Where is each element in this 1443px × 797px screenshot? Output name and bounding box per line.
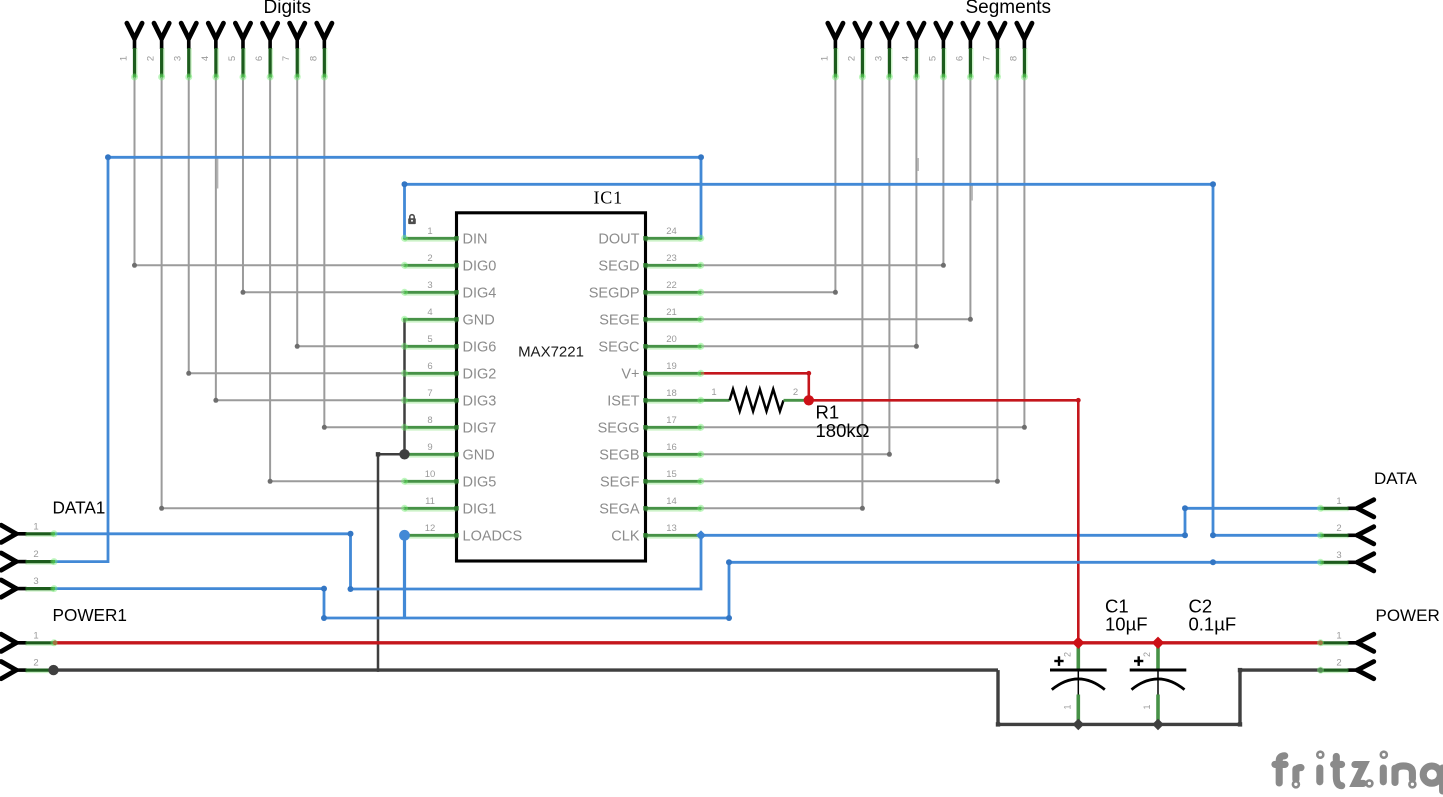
header POWER1 pin 1 bbox=[1, 634, 16, 643]
header DATA1 pin 2 bbox=[1, 553, 16, 562]
wire V+ pin19 to bend bbox=[701, 372, 809, 375]
wire GND pin9 left jog bbox=[378, 453, 405, 456]
svg-text:24: 24 bbox=[666, 226, 677, 237]
wire GND corner up bbox=[1238, 670, 1241, 724]
junction C1 ground bbox=[1073, 719, 1085, 731]
IC1 pin 22 SEGDP (right) bbox=[646, 292, 701, 295]
svg-text:14: 14 bbox=[666, 496, 677, 507]
svg-text:16: 16 bbox=[666, 442, 677, 453]
header DATA1 pin 3 bbox=[1, 580, 16, 589]
svg-text:SEGA: SEGA bbox=[599, 502, 640, 518]
svg-text:180kΩ: 180kΩ bbox=[816, 420, 870, 441]
svg-text:2: 2 bbox=[1336, 658, 1341, 669]
svg-text:Segments: Segments bbox=[966, 0, 1052, 18]
logo fritzing bbox=[1275, 756, 1443, 791]
capacitor C2 lead 1 bbox=[1157, 671, 1159, 695]
svg-text:2: 2 bbox=[146, 56, 157, 61]
IC1 pin 5 DIG6 (left) bbox=[405, 346, 457, 349]
wire Digits pin 7 to IC pin 5 bbox=[296, 77, 298, 346]
IC1 pin 8 DIG7 (left) bbox=[405, 427, 457, 430]
header Digits pin 7 bbox=[290, 23, 298, 38]
IC1 pin 16 SEGB (right) bbox=[646, 454, 701, 457]
svg-text:DIN: DIN bbox=[463, 232, 488, 248]
svg-text:MAX7221: MAX7221 bbox=[518, 344, 584, 361]
svg-text:1: 1 bbox=[711, 387, 716, 398]
header Segments pin 2 bbox=[855, 23, 863, 38]
svg-text:7: 7 bbox=[427, 388, 432, 399]
svg-text:5: 5 bbox=[427, 334, 432, 345]
wire DOUT net bbox=[55, 157, 701, 561]
header DATA pin 1 bbox=[1357, 500, 1374, 509]
resistor R1 lead 2 bbox=[784, 399, 808, 402]
svg-text:1: 1 bbox=[33, 630, 38, 641]
wire Digits pin 1 to IC pin 2 bbox=[134, 77, 136, 265]
svg-text:17: 17 bbox=[666, 415, 677, 426]
wire GND pin4 to pin9 bbox=[403, 319, 406, 454]
wire segment-4 bendpoint stub bbox=[917, 158, 919, 171]
junction CLK pin13 bbox=[696, 530, 706, 540]
IC1 pin 7 DIG3 (left) bbox=[405, 400, 457, 403]
header POWER pin 2 bbox=[1357, 662, 1374, 671]
header DATA pin 3 bbox=[1357, 554, 1374, 563]
junction C2 ground bbox=[1152, 719, 1164, 731]
header Segments pin 5 bbox=[936, 23, 944, 38]
svg-text:9: 9 bbox=[427, 442, 432, 453]
wire GND corner down bbox=[996, 670, 999, 724]
svg-text:DIG1: DIG1 bbox=[463, 502, 497, 518]
wire GND bus left bbox=[55, 668, 998, 671]
header Digits pin 3 bbox=[181, 23, 189, 38]
svg-text:3: 3 bbox=[427, 280, 432, 291]
header POWER1 pin 2 bbox=[1, 662, 16, 671]
wire GND vertical drop bbox=[377, 454, 380, 672]
svg-text:8: 8 bbox=[308, 56, 319, 61]
IC1 pin 24 DOUT (right) bbox=[646, 238, 701, 241]
svg-text:SEGG: SEGG bbox=[598, 421, 640, 437]
svg-text:IC1: IC1 bbox=[594, 188, 623, 208]
svg-text:6: 6 bbox=[427, 361, 432, 372]
svg-text:18: 18 bbox=[666, 388, 677, 399]
wire CLK net left bbox=[55, 534, 701, 589]
svg-text:DIG4: DIG4 bbox=[463, 286, 497, 302]
icon lock bbox=[408, 215, 416, 224]
resistor R1 lead 1 bbox=[701, 399, 730, 402]
IC1 pin 21 SEGE (right) bbox=[646, 319, 701, 322]
svg-text:5: 5 bbox=[927, 56, 938, 61]
svg-text:2: 2 bbox=[846, 56, 857, 61]
svg-text:7: 7 bbox=[981, 56, 992, 61]
IC1 pin 11 DIG1 (left) bbox=[405, 508, 457, 511]
svg-text:2: 2 bbox=[1062, 652, 1072, 657]
IC1 pin 2 DIG0 (left) bbox=[405, 265, 457, 268]
svg-text:4: 4 bbox=[200, 56, 211, 61]
svg-text:5: 5 bbox=[227, 56, 238, 61]
svg-text:SEGF: SEGF bbox=[600, 475, 640, 491]
header POWER pin 1 bbox=[1357, 634, 1374, 643]
svg-text:3: 3 bbox=[33, 576, 38, 587]
IC1 pin 10 DIG5 (left) bbox=[405, 481, 457, 484]
svg-text:1: 1 bbox=[427, 226, 432, 237]
svg-text:1: 1 bbox=[33, 521, 38, 532]
svg-text:1: 1 bbox=[1336, 630, 1341, 641]
header Digits pin 4 bbox=[208, 23, 216, 38]
junction GND at POWER1 pin2 bbox=[48, 665, 58, 675]
header Digits pin 8 bbox=[317, 23, 325, 38]
wire LOADCS net bbox=[55, 562, 1321, 618]
wire Segments pin 4 to IC pin 20 bbox=[915, 77, 917, 346]
junction C2 V+ bbox=[1152, 637, 1164, 649]
svg-text:SEGE: SEGE bbox=[599, 313, 640, 329]
svg-text:GND: GND bbox=[463, 448, 495, 464]
svg-text:DIG5: DIG5 bbox=[463, 475, 497, 491]
junction R1 pin2 node bbox=[804, 395, 814, 405]
svg-text:4: 4 bbox=[427, 307, 432, 318]
svg-text:Digits: Digits bbox=[264, 0, 312, 18]
svg-text:12: 12 bbox=[425, 523, 436, 534]
capacitor C2 plus sign bbox=[1134, 660, 1143, 662]
svg-text:0.1µF: 0.1µF bbox=[1189, 614, 1237, 635]
header Digits pin 5 bbox=[235, 23, 243, 38]
wire DIN net bbox=[405, 184, 1321, 535]
IC1 pin 17 SEGG (right) bbox=[646, 427, 701, 430]
svg-text:2: 2 bbox=[33, 658, 38, 669]
wire Segments pin 5 to IC pin 23 bbox=[942, 77, 944, 265]
IC1 pin 20 SEGC (right) bbox=[646, 346, 701, 349]
svg-text:DATA1: DATA1 bbox=[53, 498, 106, 518]
capacitor C1 curved plate bbox=[1052, 679, 1105, 690]
svg-text:1: 1 bbox=[1142, 704, 1152, 709]
wire Digits pin 5 to IC pin 3 bbox=[242, 77, 244, 292]
svg-text:6: 6 bbox=[954, 56, 965, 61]
svg-text:LOADCS: LOADCS bbox=[463, 529, 523, 545]
wire V+ bend down bbox=[807, 373, 810, 400]
wire Digits pin 3 to IC pin 6 bbox=[188, 77, 190, 373]
IC1 pin 9 GND (left) bbox=[405, 454, 457, 457]
svg-text:DATA: DATA bbox=[1374, 469, 1417, 488]
svg-text:V+: V+ bbox=[621, 367, 639, 383]
svg-text:DIG6: DIG6 bbox=[463, 340, 497, 356]
svg-text:DIG0: DIG0 bbox=[463, 259, 497, 275]
wire Digits pin 2 to IC pin 11 bbox=[161, 77, 163, 508]
IC1 pin 13 CLK (right) bbox=[646, 535, 701, 538]
svg-text:2: 2 bbox=[33, 549, 38, 560]
header Segments pin 7 bbox=[990, 23, 998, 38]
svg-text:8: 8 bbox=[1008, 56, 1019, 61]
capacitor C1 lead 1 bbox=[1077, 671, 1079, 695]
IC1 pin 14 SEGA (right) bbox=[646, 508, 701, 511]
wire Segments pin 2 to IC pin 14 bbox=[861, 77, 863, 508]
svg-text:2: 2 bbox=[793, 387, 798, 398]
IC U1 body -- IC1 MAX7221 bbox=[457, 213, 646, 561]
svg-text:10: 10 bbox=[425, 469, 436, 480]
wire V+ node to corner bbox=[809, 399, 1079, 402]
wire +V power bus bbox=[55, 641, 1321, 644]
svg-text:GND: GND bbox=[463, 313, 495, 329]
svg-text:15: 15 bbox=[666, 469, 677, 480]
svg-text:23: 23 bbox=[666, 253, 677, 264]
svg-text:SEGDP: SEGDP bbox=[589, 286, 640, 302]
header Segments pin 8 bbox=[1017, 23, 1025, 38]
svg-text:21: 21 bbox=[666, 307, 677, 318]
capacitor C2 curved plate bbox=[1132, 679, 1185, 690]
header Segments pin 4 bbox=[909, 23, 917, 38]
svg-text:POWER1: POWER1 bbox=[53, 605, 128, 625]
wire GND bottom bus bbox=[998, 723, 1240, 726]
header Digits pin 1 bbox=[127, 23, 135, 38]
capacitor C1 plus sign bbox=[1054, 660, 1063, 662]
svg-text:CLK: CLK bbox=[611, 529, 640, 545]
resistor R1 body bbox=[730, 389, 784, 411]
junction GND pin9 bbox=[399, 449, 409, 459]
svg-text:3: 3 bbox=[173, 56, 184, 61]
capacitor C2 top plate bbox=[1130, 669, 1187, 672]
svg-text:SEGC: SEGC bbox=[598, 340, 639, 356]
wire Segments pin 3 to IC pin 16 bbox=[888, 77, 890, 454]
svg-text:SEGD: SEGD bbox=[598, 259, 639, 275]
svg-text:DIG7: DIG7 bbox=[463, 421, 497, 437]
svg-text:POWER: POWER bbox=[1376, 606, 1440, 625]
header Digits pin 6 bbox=[263, 23, 271, 38]
header Segments pin 3 bbox=[882, 23, 890, 38]
IC1 pin 18 ISET (right) bbox=[646, 400, 701, 403]
IC1 pin 1 DIN (left) bbox=[405, 238, 457, 241]
wire segment-6 bendpoint stub bbox=[971, 185, 973, 201]
wire Segments pin 6 to IC pin 21 bbox=[969, 77, 971, 319]
svg-text:19: 19 bbox=[666, 361, 677, 372]
svg-text:SEGB: SEGB bbox=[599, 448, 639, 464]
header Segments pin 1 bbox=[828, 23, 836, 38]
IC1 pin 19 V+ (right) bbox=[646, 373, 701, 376]
capacitor C2 lead 2 bbox=[1156, 643, 1160, 669]
svg-text:6: 6 bbox=[254, 56, 265, 61]
wire V+ drop to bus bbox=[1077, 400, 1080, 643]
IC1 pin 6 DIG2 (left) bbox=[405, 373, 457, 376]
svg-text:4: 4 bbox=[900, 56, 911, 61]
IC1 pin 3 DIG4 (left) bbox=[405, 292, 457, 295]
svg-text:20: 20 bbox=[666, 334, 677, 345]
svg-text:DOUT: DOUT bbox=[598, 232, 639, 248]
junction C1 V+ bbox=[1072, 637, 1084, 649]
svg-text:1: 1 bbox=[819, 56, 830, 61]
wire Segments pin 8 to IC pin 17 bbox=[1023, 77, 1025, 427]
IC1 pin 15 SEGF (right) bbox=[646, 481, 701, 484]
svg-text:2: 2 bbox=[427, 253, 432, 264]
svg-text:3: 3 bbox=[873, 56, 884, 61]
wire Digits pin 8 to IC pin 8 bbox=[323, 77, 325, 427]
svg-text:11: 11 bbox=[425, 496, 435, 507]
connection highlights (green glow dots) bbox=[131, 74, 138, 81]
wire Digits pin 6 to IC pin 10 bbox=[269, 77, 271, 481]
header Digits pin 2 bbox=[154, 23, 162, 38]
wire Digits pin 4 to IC pin 7 bbox=[215, 77, 217, 400]
svg-text:22: 22 bbox=[666, 280, 677, 291]
header Segments pin 6 bbox=[963, 23, 971, 38]
svg-text:1: 1 bbox=[1336, 496, 1341, 507]
svg-text:ISET: ISET bbox=[607, 394, 639, 410]
svg-text:DIG2: DIG2 bbox=[463, 367, 497, 383]
header DATA pin 2 bbox=[1357, 527, 1374, 536]
IC1 pin 4 GND (left) bbox=[405, 319, 457, 322]
svg-text:3: 3 bbox=[1336, 550, 1341, 561]
svg-text:1: 1 bbox=[1062, 704, 1072, 709]
wire GND to POWER pin2 bbox=[1240, 668, 1321, 671]
svg-text:2: 2 bbox=[1142, 652, 1152, 657]
wire CLK net right bbox=[701, 508, 1321, 535]
svg-text:8: 8 bbox=[427, 415, 432, 426]
IC1 pin 23 SEGD (right) bbox=[646, 265, 701, 268]
capacitor C1 lead 2 bbox=[1077, 643, 1081, 669]
wire Segments pin 1 to IC pin 22 bbox=[834, 77, 836, 292]
svg-text:1: 1 bbox=[119, 56, 130, 61]
svg-text:DIG3: DIG3 bbox=[463, 394, 497, 410]
wire digit-4 bendpoint stub bbox=[216, 158, 218, 189]
svg-text:13: 13 bbox=[666, 523, 677, 534]
wire Segments pin 7 to IC pin 15 bbox=[996, 77, 998, 481]
wire LOADCS pin12 drop bbox=[403, 535, 406, 620]
header DATA1 pin 1 bbox=[1, 525, 16, 534]
svg-text:10µF: 10µF bbox=[1105, 614, 1148, 635]
svg-text:2: 2 bbox=[1336, 523, 1341, 534]
IC1 pin 12 LOADCS (left) bbox=[405, 535, 457, 538]
junction LOADCS pin12 bbox=[399, 530, 410, 541]
svg-text:7: 7 bbox=[281, 56, 292, 61]
capacitor C1 top plate bbox=[1050, 669, 1107, 672]
